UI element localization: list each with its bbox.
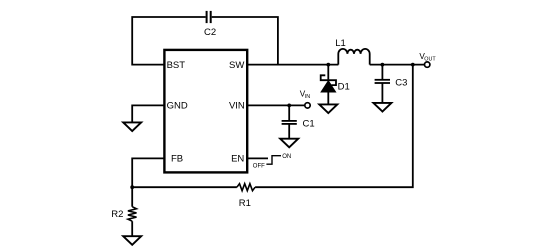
svg-text:GND: GND — [167, 101, 188, 112]
svg-text:VIN: VIN — [229, 101, 245, 112]
svg-text:FB: FB — [171, 154, 183, 165]
svg-text:EN: EN — [231, 154, 244, 165]
svg-text:SW: SW — [229, 60, 244, 71]
svg-text:BST: BST — [167, 60, 186, 71]
svg-text:C3: C3 — [395, 77, 407, 88]
svg-text:D1: D1 — [338, 81, 350, 92]
svg-text:C2: C2 — [204, 27, 216, 38]
svg-text:L1: L1 — [335, 38, 346, 49]
svg-text:IN: IN — [305, 94, 310, 100]
svg-text:OUT: OUT — [424, 56, 436, 62]
svg-text:ON: ON — [282, 154, 291, 160]
svg-text:R2: R2 — [111, 209, 123, 220]
svg-text:C1: C1 — [303, 118, 315, 129]
svg-text:R1: R1 — [239, 198, 251, 209]
svg-text:OFF: OFF — [253, 164, 265, 170]
